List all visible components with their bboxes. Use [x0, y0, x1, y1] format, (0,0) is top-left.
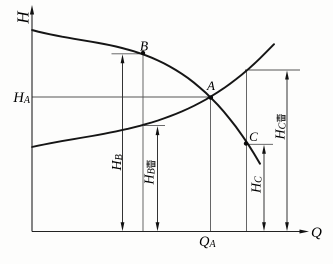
horizontal tick at system-curve level for Q_B: [144, 125, 165, 127]
H_B dimension arrow: [121, 54, 125, 231]
vertical line through A (Q_A): [210, 98, 212, 232]
point C dot: [244, 141, 248, 145]
svg-text:A: A: [206, 78, 215, 93]
horizontal tick at C level: [247, 143, 273, 145]
svg-text:H: H: [14, 10, 33, 25]
x axis: [32, 230, 309, 234]
point A dot: [209, 95, 214, 100]
svg-text:B: B: [140, 39, 148, 54]
point B dot: [141, 51, 145, 55]
vertical line through B: [142, 53, 144, 232]
H_C需 dimension arrow: [285, 71, 289, 232]
H_A horizontal reference line: [32, 96, 211, 98]
vertical line through C: [246, 70, 248, 232]
horizontal level line at system-curve height for Q_C: [245, 69, 300, 71]
svg-text:Q: Q: [311, 225, 322, 241]
y axis: [30, 5, 34, 232]
label H_B需 (rotated, 需 drawn as strokes): [143, 160, 158, 185]
system (required head) curve (through A): [32, 44, 274, 147]
H_C dimension arrow: [262, 145, 266, 231]
pump characteristic curve (through B, A, C): [32, 30, 260, 164]
H_B需 dimension arrow: [156, 126, 160, 231]
label H_C需 (rotated, 需 drawn as strokes): [274, 114, 289, 140]
svg-text:C: C: [249, 129, 258, 144]
horizontal tick at B level: [112, 53, 144, 55]
